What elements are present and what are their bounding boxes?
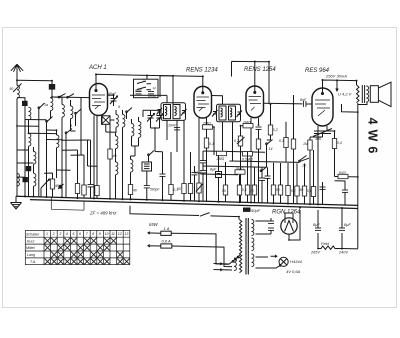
coil L6 xyxy=(17,174,19,187)
capacitor C2 (block) xyxy=(23,101,28,105)
table X marks row TA xyxy=(45,259,130,265)
capacitor C18 xyxy=(265,176,271,178)
wire links upper xyxy=(17,120,71,171)
capacitor C13 xyxy=(256,127,262,129)
resistor R8 xyxy=(204,138,208,148)
coil L17 xyxy=(116,162,118,175)
svg-text:8: 8 xyxy=(92,232,94,236)
electrolytic 8uF xyxy=(216,172,222,178)
wire long vertical to IF can xyxy=(172,76,174,104)
antenna xyxy=(11,64,23,80)
svg-text:ZF = 489 kHz: ZF = 489 kHz xyxy=(89,211,117,216)
wire xyxy=(358,102,367,105)
svg-text:0,4: 0,4 xyxy=(307,189,312,193)
switch 2b xyxy=(68,94,75,98)
wire xyxy=(83,155,85,198)
svg-text:1 A: 1 A xyxy=(164,226,170,231)
wire tap xyxy=(336,80,338,91)
coil box b xyxy=(173,105,180,119)
wire links xyxy=(62,140,91,155)
resistor R6 xyxy=(108,149,112,159)
svg-text:RENS 1234: RENS 1234 xyxy=(186,68,218,74)
svg-text:3: 3 xyxy=(70,124,72,128)
tube RES964 xyxy=(312,88,333,126)
resistor R10 xyxy=(256,139,260,149)
svg-text:8μF: 8μF xyxy=(344,222,351,227)
svg-text:0,2: 0,2 xyxy=(234,139,239,143)
capacitor C16b xyxy=(192,173,198,175)
resistor R9 2M xyxy=(243,124,253,128)
svg-text:0,4: 0,4 xyxy=(337,141,342,145)
wire anode ACH1 to IF1 xyxy=(108,94,115,96)
svg-text:4: 4 xyxy=(66,232,68,236)
capacitor C4 xyxy=(88,185,94,187)
svg-text:RENS 1254: RENS 1254 xyxy=(244,67,276,73)
wire xyxy=(51,97,63,98)
svg-text:10nF: 10nF xyxy=(194,171,203,175)
capacitor C3 (block) xyxy=(26,167,30,171)
capacitor C10 xyxy=(160,174,166,176)
resistor R14b xyxy=(243,152,253,156)
svg-text:2MΩ: 2MΩ xyxy=(216,157,225,161)
svg-text:50: 50 xyxy=(177,187,181,191)
svg-text:50μF: 50μF xyxy=(251,208,261,213)
switch 6 xyxy=(137,81,151,84)
coil L13 xyxy=(132,124,134,137)
resistor R27 xyxy=(302,186,306,196)
wire anode RES964 xyxy=(323,80,357,92)
coil box a xyxy=(164,105,171,119)
wire grid cap RENS1234 xyxy=(160,76,203,97)
svg-text:40: 40 xyxy=(113,154,117,158)
capacitor C15 xyxy=(200,161,206,163)
resistor R3 xyxy=(75,184,79,194)
switch 8 xyxy=(149,151,155,162)
svg-text:50: 50 xyxy=(222,189,226,193)
switch 16 xyxy=(261,167,267,172)
resistor R24 xyxy=(278,185,282,195)
resistor R26 xyxy=(295,186,299,196)
wires lamp xyxy=(256,255,281,268)
wire xyxy=(241,126,244,136)
wire xyxy=(116,110,123,133)
capacitor block across HT xyxy=(268,221,274,223)
wire taps to winding xyxy=(222,264,232,270)
svg-text:12: 12 xyxy=(153,86,157,90)
switch 1 xyxy=(39,103,45,116)
svg-text:Kurz: Kurz xyxy=(27,239,35,243)
tuning cap CV1 xyxy=(147,114,155,122)
wire xyxy=(38,116,40,197)
capacitor C14 8nF xyxy=(304,101,306,107)
svg-text:12: 12 xyxy=(118,232,122,236)
svg-text:0,2: 0,2 xyxy=(273,128,278,132)
wire xyxy=(310,134,323,141)
svg-text:Schalter: Schalter xyxy=(26,232,40,236)
svg-text:11: 11 xyxy=(111,232,115,236)
svg-text:Mittel: Mittel xyxy=(26,246,35,250)
svg-text:2: 2 xyxy=(52,232,55,236)
output transformer primary xyxy=(357,85,360,103)
resistor R13 xyxy=(291,139,295,149)
output transformer core xyxy=(362,85,364,103)
svg-text:Feld: Feld xyxy=(321,241,330,246)
svg-text:U 4,2 V: U 4,2 V xyxy=(338,92,352,97)
wire xyxy=(24,106,26,197)
speaker xyxy=(370,82,391,106)
svg-text:8μF: 8μF xyxy=(313,222,320,227)
coil L14 xyxy=(139,122,141,138)
wire xyxy=(94,120,115,198)
coil L7 xyxy=(51,98,53,111)
svg-text:50: 50 xyxy=(10,87,14,91)
pot P4 xyxy=(197,183,201,193)
svg-text:14: 14 xyxy=(269,147,273,151)
wire xyxy=(113,94,115,106)
mains switch blade xyxy=(200,213,210,217)
filament tap arrows xyxy=(214,263,223,271)
tube socket box xyxy=(102,116,111,125)
svg-text:Lang: Lang xyxy=(27,253,35,257)
main bus (chassis) xyxy=(16,196,358,205)
svg-text:4 W 6: 4 W 6 xyxy=(366,118,380,155)
tube RENS1234 xyxy=(194,86,212,118)
mains switch wire xyxy=(130,206,239,220)
ground xyxy=(11,196,22,209)
wires fuses to transformer xyxy=(171,233,229,266)
svg-text:1a: 1a xyxy=(44,103,48,107)
switch 5 xyxy=(127,108,133,120)
tuning cap CV2 xyxy=(156,114,164,122)
output transformer secondary xyxy=(366,86,368,102)
svg-text:265V: 265V xyxy=(310,251,320,255)
resistor R14c xyxy=(169,185,173,195)
capacitor C20 xyxy=(342,190,348,192)
tube ACH1 xyxy=(90,84,108,116)
svg-text:0,1: 0,1 xyxy=(279,139,284,143)
osc coil L11 xyxy=(116,115,118,128)
svg-text:4V 0,6A: 4V 0,6A xyxy=(286,269,301,274)
secondary winding 2 xyxy=(252,238,254,251)
tube RENS1254 xyxy=(246,86,264,118)
wire xyxy=(77,150,79,198)
svg-text:5: 5 xyxy=(72,232,74,236)
wire anode RENS1234 to IF2 xyxy=(212,96,223,105)
resistor R14d xyxy=(182,184,186,194)
switch 2a xyxy=(59,94,66,98)
secondary winding 3 xyxy=(252,254,254,267)
trimmer T1 xyxy=(58,184,64,189)
wire xyxy=(17,150,34,196)
svg-text:H4344: H4344 xyxy=(290,259,303,264)
resistor R7 2M xyxy=(203,125,213,129)
capacitor C1 50pF (black block) xyxy=(49,85,54,90)
svg-text:6: 6 xyxy=(79,232,81,236)
resistor R14e xyxy=(188,184,192,194)
svg-text:240V: 240V xyxy=(338,251,348,255)
secondary HT winding xyxy=(252,220,254,236)
wire xyxy=(270,105,272,141)
svg-text:3: 3 xyxy=(59,232,61,236)
rectifier tube RGN1264 xyxy=(281,218,297,234)
resistor R23 xyxy=(271,185,275,195)
svg-text:10: 10 xyxy=(105,232,109,236)
svg-text:0,1: 0,1 xyxy=(291,189,296,193)
transformer core xyxy=(246,218,248,275)
resistor R11 xyxy=(268,125,272,135)
svg-text:40: 40 xyxy=(133,189,137,193)
electrolytic 8uF left xyxy=(317,210,319,249)
coil L4 xyxy=(34,152,36,165)
wire vertical x81 xyxy=(81,97,84,155)
resistor R18 5M xyxy=(235,170,245,174)
field coil xyxy=(318,246,358,249)
svg-text:250V 30mA: 250V 30mA xyxy=(325,74,347,79)
svg-text:50: 50 xyxy=(276,188,280,192)
coil L9 xyxy=(71,106,73,119)
svg-text:0,6 A: 0,6 A xyxy=(162,239,172,244)
wire xyxy=(47,130,57,178)
resistor R15 xyxy=(308,140,312,150)
svg-text:9: 9 xyxy=(99,232,101,236)
svg-text:400: 400 xyxy=(315,137,321,141)
trimmer T2 40pF xyxy=(110,96,118,104)
svg-text:T.A.: T.A. xyxy=(30,260,36,264)
coil L15 xyxy=(116,136,118,149)
svg-text:5MΩ: 5MΩ xyxy=(236,167,244,171)
wire xyxy=(267,140,271,167)
svg-text:0,1: 0,1 xyxy=(242,188,247,192)
ZF annotation bracket xyxy=(51,197,84,210)
resistor R2 xyxy=(50,179,54,189)
capacitor C19 xyxy=(320,187,326,189)
wire xyxy=(16,80,18,85)
switch 14 xyxy=(267,140,273,152)
potentiometer P1 xyxy=(41,179,50,188)
voltage selector xyxy=(229,255,240,267)
svg-text:8nF: 8nF xyxy=(300,98,307,102)
fuse 1A xyxy=(161,231,171,235)
resistor R28 xyxy=(311,187,315,197)
table xyxy=(25,230,130,264)
electrolytic 8uF right xyxy=(341,208,343,249)
switch 4 xyxy=(66,129,72,141)
capacitor C16 10nF xyxy=(200,171,206,173)
tiny labels row xyxy=(222,188,312,193)
resistor R19 xyxy=(223,185,227,195)
wire xyxy=(318,126,327,204)
switch 2 xyxy=(47,117,53,131)
table X marks row Kurz xyxy=(45,238,117,244)
wire coupling to RES964 xyxy=(264,102,303,105)
heater bus xyxy=(30,200,358,209)
resistor R5 xyxy=(95,186,99,196)
pilot lamp xyxy=(279,257,288,266)
resistor R25 xyxy=(286,186,290,196)
wire heater stubs xyxy=(323,187,346,205)
switch 3 xyxy=(76,109,82,121)
wire junction dots xyxy=(16,61,359,250)
wire rows xyxy=(201,151,300,175)
svg-text:13: 13 xyxy=(124,232,128,236)
svg-text:9: 9 xyxy=(118,105,120,109)
switch 15 xyxy=(299,156,309,162)
resistor R17 xyxy=(338,174,348,178)
wire xyxy=(51,81,53,97)
coil L10 xyxy=(57,135,59,148)
wire IF2 down xyxy=(223,122,233,162)
switch 7 xyxy=(137,87,151,90)
resistor R16 xyxy=(332,139,336,149)
svg-text:10nF: 10nF xyxy=(168,124,177,128)
wire xyxy=(17,98,25,102)
cathode pot P3 xyxy=(313,129,332,137)
capacitor C17 xyxy=(259,178,265,180)
coil L8 xyxy=(62,105,64,118)
svg-text:50: 50 xyxy=(300,188,304,192)
capacitor C12 10nF xyxy=(174,128,180,130)
volume pot P2 xyxy=(238,136,242,146)
filament winding xyxy=(234,258,236,271)
coil L3 xyxy=(29,134,31,147)
wire into band box xyxy=(146,75,148,79)
resistor R4 xyxy=(82,185,86,195)
resistor R21 xyxy=(245,185,249,195)
50uF capacitor xyxy=(244,208,251,211)
svg-text:40pF: 40pF xyxy=(135,88,142,92)
padder capacitor C9 xyxy=(142,162,152,171)
resistor R12 xyxy=(284,138,288,148)
antenna coil L1 xyxy=(17,86,19,99)
capacitor C11 xyxy=(144,186,150,188)
svg-text:ACH 1: ACH 1 xyxy=(88,65,107,71)
resistor R20 xyxy=(237,185,241,195)
svg-text:40: 40 xyxy=(250,189,254,193)
band switch box xyxy=(134,79,159,98)
wire grid cap RENS1254 xyxy=(232,61,270,104)
svg-text:1M: 1M xyxy=(303,142,308,146)
wire cathode xyxy=(251,118,259,202)
label 4W6 xyxy=(366,118,380,155)
svg-text:8μF: 8μF xyxy=(210,168,217,172)
wire xyxy=(207,127,215,201)
wire xyxy=(96,116,98,199)
svg-text:500pF: 500pF xyxy=(150,188,160,192)
resistor R6b xyxy=(128,185,132,195)
wire xyxy=(90,140,92,198)
wire xyxy=(132,146,147,176)
trimmer xyxy=(181,109,187,116)
wire tuned circuit to ACH1 xyxy=(52,96,90,99)
wires HT to rectifier xyxy=(256,210,301,240)
wire secondary return xyxy=(342,103,358,249)
power transformer primary xyxy=(240,220,242,273)
wire xyxy=(46,130,48,197)
resistor R14 xyxy=(217,151,227,155)
mains input 1 xyxy=(148,232,161,234)
svg-text:R43: R43 xyxy=(339,171,346,175)
wire grid cap ACH1 xyxy=(96,74,173,89)
capacitor C7 xyxy=(148,92,154,94)
svg-text:0,1: 0,1 xyxy=(209,142,214,146)
fuse 0.6A xyxy=(161,244,172,248)
wire xyxy=(106,110,163,199)
wire xyxy=(143,110,160,152)
capacitor C6 xyxy=(136,92,142,94)
resistor R22 xyxy=(252,185,256,195)
osc coil L12 xyxy=(123,115,125,128)
svg-text:1: 1 xyxy=(46,232,48,236)
wire ACH1 cathode down xyxy=(94,116,102,125)
mains input 2 xyxy=(148,245,161,247)
svg-text:2MΩ: 2MΩ xyxy=(242,121,251,125)
svg-text:65W: 65W xyxy=(149,222,159,227)
wire vertical x87 xyxy=(88,140,98,166)
trimmer xyxy=(157,108,163,115)
capacitor C3b (block) xyxy=(23,178,27,182)
coil L16 xyxy=(131,160,133,173)
wire xyxy=(199,118,207,201)
coil L2 xyxy=(29,107,31,120)
wire antenna feed xyxy=(17,79,52,82)
table X marks row Lang xyxy=(51,252,123,258)
svg-text:40: 40 xyxy=(55,184,59,188)
wire xyxy=(66,121,76,197)
table X marks row Mittel xyxy=(45,245,110,251)
wire xyxy=(41,173,53,197)
coil L5 xyxy=(34,174,36,187)
